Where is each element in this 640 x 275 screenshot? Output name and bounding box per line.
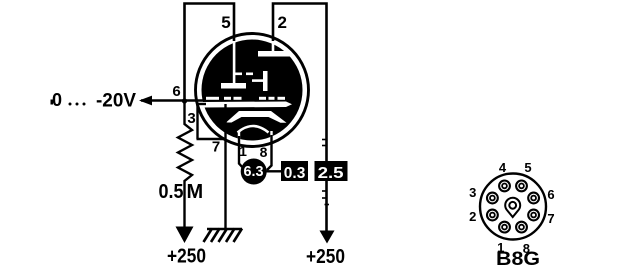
resistor R1 0.5M zigzag (178, 100, 192, 228)
svg-text:0: 0 (52, 90, 62, 110)
base pin 2 (487, 210, 498, 221)
electrode: pin 2 anode lead and bar (258, 42, 291, 57)
svg-text:2: 2 (469, 209, 476, 224)
value box 0.3 heater current (281, 161, 308, 182)
svg-text:+250: +250 (306, 246, 345, 268)
svg-text:2: 2 (278, 13, 287, 32)
base pin 5 (516, 181, 527, 192)
svg-text:5: 5 (221, 13, 230, 32)
electrode: control grid g1 dashed line (206, 97, 285, 100)
electrode: cathode band (202, 102, 292, 108)
tick marks on anode supply wire (322, 140, 329, 205)
svg-text:6: 6 (172, 83, 180, 100)
wire: anode supply below 2.5 box (325, 181, 328, 232)
svg-text:4: 4 (499, 160, 507, 175)
svg-text:0.5: 0.5 (159, 181, 184, 203)
electrode: fluorescent target arc (226, 111, 287, 123)
svg-text:+250: +250 (167, 246, 206, 268)
base pin 6 (528, 193, 539, 204)
svg-text:5: 5 (524, 160, 531, 175)
svg-text:6: 6 (547, 187, 554, 202)
wire: pin 2 top bracket to anode supply (273, 4, 327, 164)
label: grid voltage 0 ... -20V (51, 90, 137, 112)
wire: grid input line to pin 6 (141, 99, 206, 102)
svg-text:B8G: B8G (496, 249, 540, 270)
base pin 8 (516, 222, 527, 233)
wire: cathode box to pin 7 (rectangle route) (197, 103, 227, 139)
svg-text:2.5: 2.5 (318, 165, 344, 182)
svg-text:-20V: -20V (96, 91, 136, 112)
tube V1 interior disc (202, 40, 303, 141)
value box 2.5 anode current (315, 161, 348, 182)
value label 0.5 M (159, 181, 204, 203)
svg-text:7: 7 (547, 211, 554, 226)
svg-text:7: 7 (212, 139, 220, 156)
heater voltage circle 6.3 (241, 159, 267, 185)
svg-text:3: 3 (187, 110, 195, 127)
wire: pin 5 top bracket to grid junction (185, 4, 235, 102)
electrode: heater filament arc (238, 126, 269, 133)
wire: pin 7 to ground (224, 139, 226, 229)
electrode: pin 5 lead and plate bar (221, 41, 246, 89)
wire: heater lead pin 8 (267, 135, 272, 170)
arrowhead: grid input arrow pointing left (139, 96, 152, 106)
base pin 7 (528, 210, 539, 221)
junction: grid node (182, 98, 187, 103)
base pin 4 (499, 181, 510, 192)
svg-text:6.3: 6.3 (244, 163, 264, 180)
svg-text:0.3: 0.3 (284, 165, 306, 182)
base center spigot (505, 198, 520, 217)
wire: 6.3 to 0.3 box (266, 170, 282, 172)
svg-text:M: M (187, 181, 204, 203)
electrode: middle grid dashes and deflection bar (234, 71, 268, 91)
base pin 3 (487, 193, 498, 204)
svg-text:3: 3 (469, 185, 476, 200)
wire: heater lead pin 1 (239, 136, 245, 170)
svg-text:8: 8 (260, 144, 268, 160)
heater lead stubs inside tube (238, 131, 273, 139)
svg-text:1: 1 (239, 143, 247, 159)
arrowhead: right +250 supply (320, 231, 335, 244)
tube V1 envelope (196, 34, 309, 147)
ground symbol (204, 229, 243, 243)
B8G base outline circle (480, 174, 546, 240)
arrowhead: left +250 supply (176, 227, 194, 244)
base pin 1 (499, 222, 510, 233)
